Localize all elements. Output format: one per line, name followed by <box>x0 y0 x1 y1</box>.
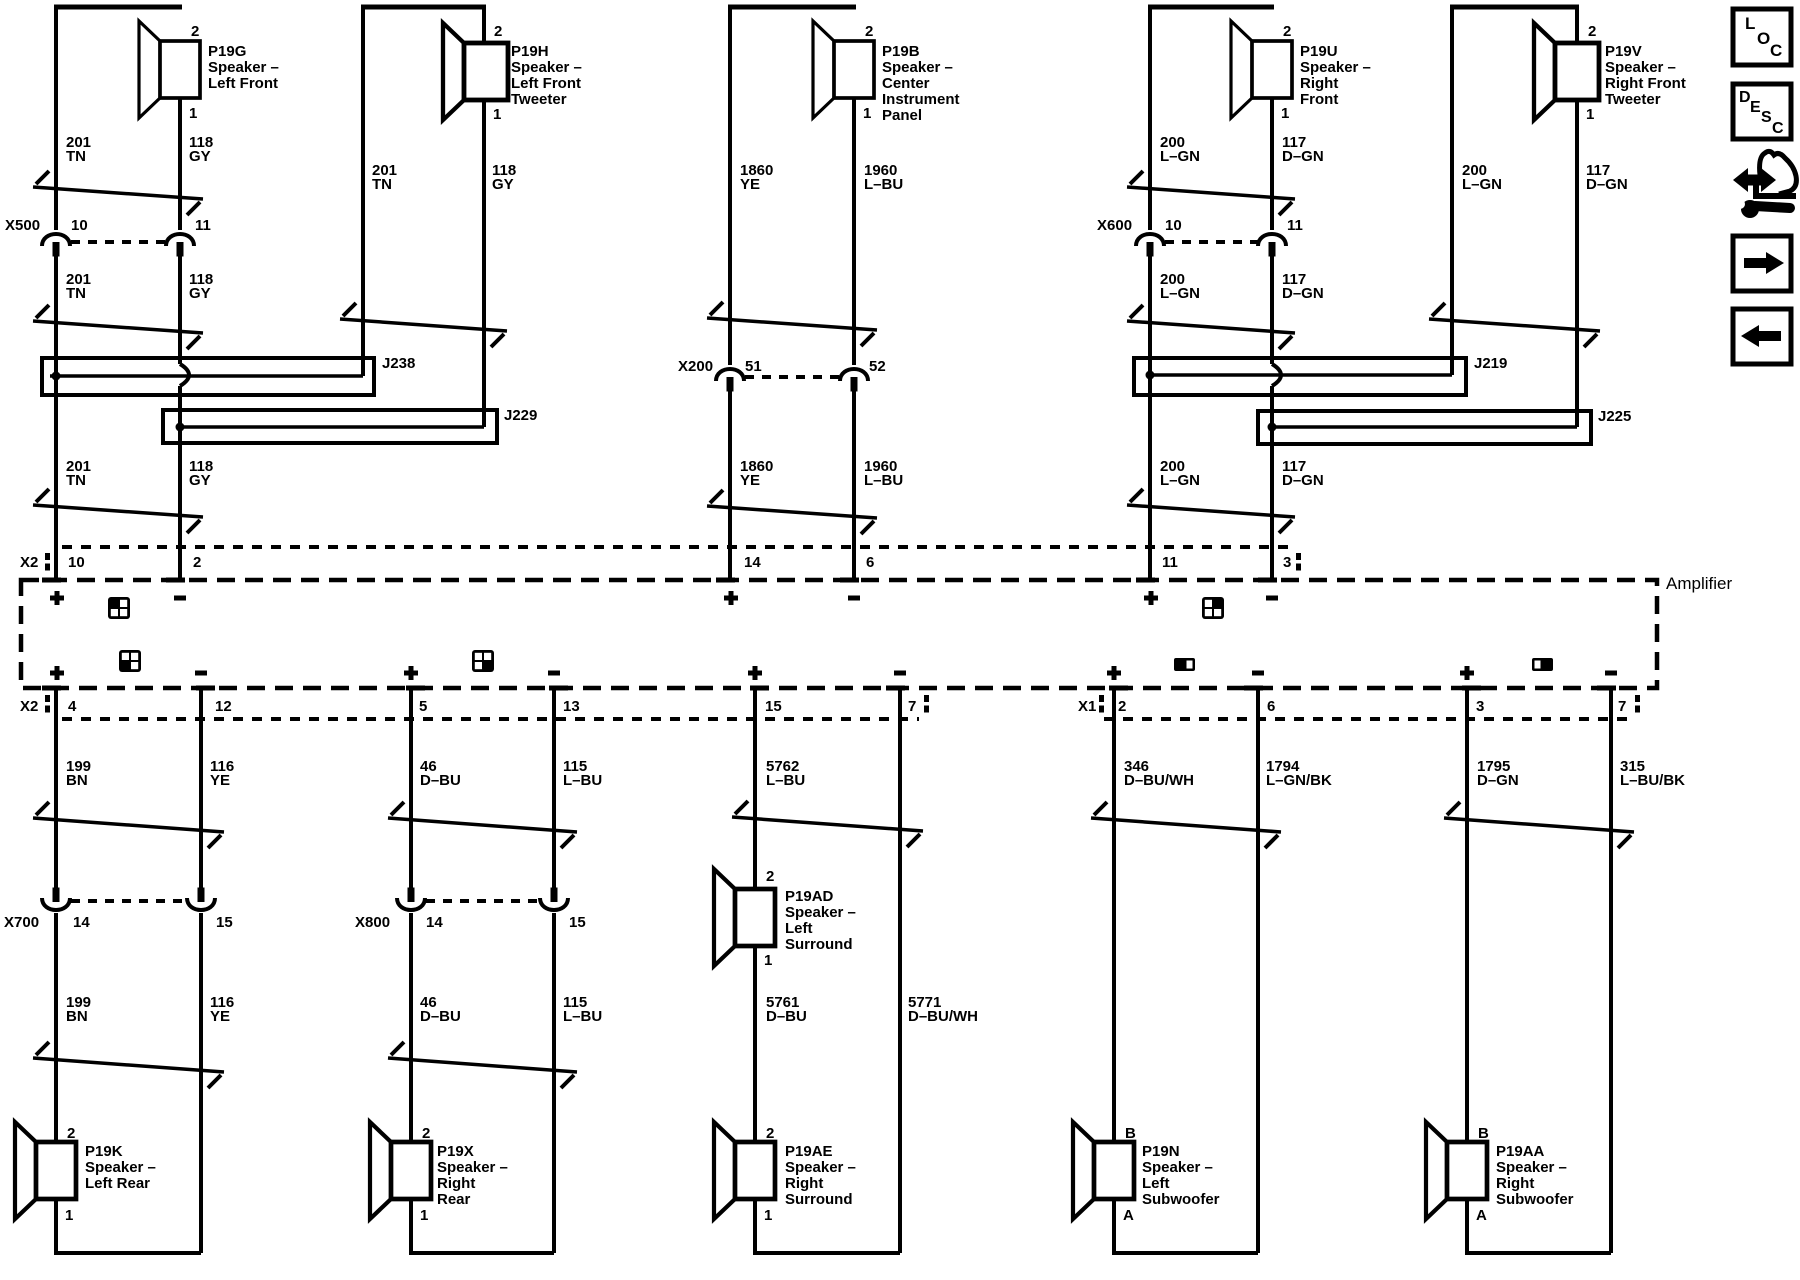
wire P19H tweeter loop top <box>361 5 486 10</box>
connector X2 bottom label <box>20 698 38 715</box>
svg-text:P19H: P19H <box>511 43 549 60</box>
label 118 GY row1 <box>189 134 213 165</box>
speaker P19AE <box>714 1122 775 1219</box>
harness crossing center pair row2 <box>707 490 877 534</box>
svg-text:1: 1 <box>493 106 501 123</box>
svg-text:11: 11 <box>1162 554 1178 571</box>
connector X2 bottom colon left <box>45 695 50 713</box>
wire 117 D-GN right tweeter pin1 drop <box>1575 100 1579 427</box>
amplifier pin foot X1-3 <box>1462 686 1481 691</box>
connector X700 label <box>4 914 39 931</box>
svg-text:P19N: P19N <box>1142 1143 1180 1160</box>
connector X700 cavity 14 <box>42 888 70 911</box>
speaker P19H <box>443 23 508 120</box>
svg-text:GY: GY <box>189 285 211 302</box>
amplifier + right front <box>1144 591 1158 605</box>
legend LOC box <box>1733 9 1791 65</box>
legend forward arrow box <box>1733 236 1791 291</box>
wire 118 GY tweeter pin1 drop <box>482 100 486 427</box>
amplifier - surround <box>894 671 906 676</box>
amplifier + right subwoofer <box>1460 666 1474 680</box>
wire P19V tweeter loop top <box>1450 5 1579 10</box>
splice J238 wire <box>50 374 363 378</box>
connector X2 pin 5 label <box>419 698 427 715</box>
svg-text:X1: X1 <box>1078 698 1096 715</box>
splice J238 box <box>42 358 374 395</box>
amplifier pin foot X2-3 <box>1258 578 1277 583</box>
connector X700 cavity 15 <box>187 888 215 911</box>
connector X500 pin 10 label <box>71 217 88 234</box>
amplifier pin foot X2-2 <box>166 578 185 583</box>
speaker P19U pin 2 <box>1283 23 1291 40</box>
connector X200 cavity 52 <box>840 369 868 392</box>
splice J219 junction dot <box>1146 371 1155 380</box>
amplifier pin foot X2-5 <box>406 686 425 691</box>
svg-text:1: 1 <box>863 105 871 122</box>
connector X2 pin 12 label <box>215 698 232 715</box>
connector X1 pin 7 label <box>1618 698 1626 715</box>
svg-text:X600: X600 <box>1097 217 1132 234</box>
svg-text:D–BU: D–BU <box>420 1008 461 1025</box>
speaker P19N pin A <box>1123 1207 1134 1224</box>
amplifier - center <box>848 596 860 601</box>
speaker P19B label <box>882 43 960 124</box>
speaker P19K label <box>85 1143 156 1192</box>
svg-text:L–BU: L–BU <box>563 1008 602 1025</box>
amplifier pin foot X2-14 <box>716 578 735 583</box>
svg-text:P19AD: P19AD <box>785 888 834 905</box>
harness crossing left tweeter pair <box>340 303 507 347</box>
connector X500 cavity 11 <box>166 234 194 257</box>
connector X800 pin 14 label <box>426 914 443 931</box>
label 115 L-BU row5 <box>563 994 602 1025</box>
label 5771 D-BU/WH row5 <box>908 994 978 1025</box>
amplifier pin foot X2-13 <box>549 686 568 691</box>
svg-text:L–BU: L–BU <box>864 176 903 193</box>
amplifier pin foot X1-7 <box>1597 686 1616 691</box>
svg-text:A: A <box>1123 1207 1134 1224</box>
connector X600 pin 11 label <box>1287 217 1303 234</box>
svg-text:7: 7 <box>908 698 916 715</box>
svg-text:2: 2 <box>1118 698 1126 715</box>
speaker P19K <box>15 1122 76 1219</box>
amplifier channel icon right subwoofer <box>1532 658 1553 671</box>
svg-text:Right: Right <box>1496 1175 1534 1192</box>
wire 200 L-GN segment 2 <box>1148 256 1152 578</box>
label 201 TN row1 <box>66 134 91 165</box>
connector X600 pin 10 label <box>1165 217 1182 234</box>
speaker P19U label <box>1300 43 1371 108</box>
label 117 D-GN row2 <box>1282 271 1324 302</box>
svg-text:2: 2 <box>191 23 199 40</box>
label 118 GY row3 <box>189 458 213 489</box>
amplifier channel icon left subwoofer <box>1174 658 1195 671</box>
label 201 TN tweeter <box>372 162 397 193</box>
connector X2 pin 4 label <box>68 698 77 715</box>
svg-text:2: 2 <box>1283 23 1291 40</box>
speaker P19AA pin B <box>1478 1125 1489 1142</box>
harness crossing left-front pair <box>33 171 203 215</box>
svg-text:J238: J238 <box>382 355 415 372</box>
svg-text:4: 4 <box>68 698 77 715</box>
amplifier + left front <box>50 591 64 605</box>
svg-text:X800: X800 <box>355 914 390 931</box>
svg-text:15: 15 <box>216 914 233 931</box>
connector X600 cavity 11 <box>1258 234 1286 257</box>
svg-text:BN: BN <box>66 1008 88 1025</box>
speaker P19K pin 1 <box>65 1207 73 1224</box>
svg-text:O: O <box>1757 29 1770 48</box>
amplifier pin foot X2-15 <box>750 686 769 691</box>
svg-text:GY: GY <box>492 176 514 193</box>
label 315 L-BU/BK row4 <box>1620 758 1685 789</box>
legend DESC box <box>1733 84 1791 139</box>
label 118 GY row2 <box>189 271 213 302</box>
connector X200 label <box>678 358 713 375</box>
connector X700 pin 15 label <box>216 914 233 931</box>
wire 116 YE segment 1 <box>199 687 203 888</box>
speaker P19G pin 2 <box>191 23 199 40</box>
splice J229 label <box>504 407 537 424</box>
speaker P19G <box>139 21 200 118</box>
svg-text:X500: X500 <box>5 217 40 234</box>
svg-text:12: 12 <box>215 698 232 715</box>
svg-text:D–GN: D–GN <box>1282 472 1324 489</box>
svg-text:1: 1 <box>65 1207 73 1224</box>
wire 346 D-BU/WH <box>1112 687 1116 1142</box>
svg-text:Speaker –: Speaker – <box>785 904 856 921</box>
svg-text:1: 1 <box>1281 105 1289 122</box>
svg-text:15: 15 <box>569 914 586 931</box>
svg-text:1: 1 <box>420 1207 428 1224</box>
wire P19AA loop bottom <box>1467 1197 1611 1253</box>
connector X2 bottom colon right <box>924 695 929 713</box>
connector X600 label <box>1097 217 1132 234</box>
svg-text:L–BU/BK: L–BU/BK <box>1620 772 1685 789</box>
speaker P19AA <box>1426 1122 1487 1219</box>
speaker P19K pin 2 <box>67 1125 75 1142</box>
svg-text:Amplifier: Amplifier <box>1666 574 1732 593</box>
wire 199 BN segment 1 <box>54 687 58 888</box>
harness crossing left rear pair row2 <box>33 1042 224 1088</box>
splice J229 junction dot <box>176 423 185 432</box>
connector X200 mating dash <box>745 375 839 379</box>
connector X500 cavity 10 <box>42 234 70 257</box>
svg-text:Rear: Rear <box>437 1191 471 1208</box>
label 1960 L-BU row1 <box>864 162 903 193</box>
svg-text:Center: Center <box>882 75 930 92</box>
connector X2 pin 3 label <box>1283 554 1291 571</box>
connector X1 colon right <box>1635 695 1640 713</box>
connector X2 top colon left <box>45 553 50 571</box>
svg-text:10: 10 <box>71 217 88 234</box>
svg-text:2: 2 <box>766 1125 774 1142</box>
svg-text:2: 2 <box>422 1125 430 1142</box>
speaker P19AD <box>714 869 775 966</box>
splice J229 wire <box>177 425 484 429</box>
connector X2 pin 15 label <box>765 698 782 715</box>
amplifier + left subwoofer <box>1107 666 1121 680</box>
svg-text:Speaker –: Speaker – <box>208 59 279 76</box>
svg-text:X2: X2 <box>20 698 38 715</box>
speaker P19B pin 1 <box>863 105 871 122</box>
svg-text:E: E <box>1750 99 1761 116</box>
svg-text:14: 14 <box>426 914 443 931</box>
svg-text:Left: Left <box>785 920 813 937</box>
amplifier channel icon left rear <box>119 650 141 672</box>
svg-text:D–GN: D–GN <box>1477 772 1519 789</box>
label 118 GY tweeter <box>492 162 516 193</box>
wire 200 L-GN right-front segment 1 <box>1148 7 1152 230</box>
splice J219 label <box>1474 355 1507 372</box>
svg-text:10: 10 <box>68 554 85 571</box>
wire 201 TN left-front segment 1 <box>54 7 58 230</box>
svg-text:1: 1 <box>189 105 197 122</box>
wire 118 GY segment 2 with hop at J238 <box>180 256 189 578</box>
svg-text:5: 5 <box>419 698 427 715</box>
svg-text:2: 2 <box>67 1125 75 1142</box>
connector X800 label <box>355 914 390 931</box>
svg-text:2: 2 <box>865 23 873 40</box>
svg-text:L–BU: L–BU <box>766 772 805 789</box>
svg-text:BN: BN <box>66 772 88 789</box>
svg-text:Speaker –: Speaker – <box>437 1159 508 1176</box>
legend service icon <box>1733 151 1796 218</box>
connector X2 pin 2 label <box>193 554 201 571</box>
connector X500 mating dash <box>71 240 165 244</box>
speaker P19V pin 2 <box>1588 23 1596 40</box>
amplifier dashed outline <box>21 580 1657 688</box>
speaker P19B <box>813 21 874 118</box>
svg-text:B: B <box>1478 1125 1489 1142</box>
label 46 D-BU row4 <box>420 758 461 789</box>
connector X2 top dotted row <box>62 545 1292 549</box>
svg-text:X2: X2 <box>20 554 38 571</box>
speaker P19N <box>1073 1122 1134 1219</box>
svg-text:1: 1 <box>764 952 772 969</box>
speaker P19AE pin 2 <box>766 1125 774 1142</box>
svg-text:Instrument: Instrument <box>882 91 960 108</box>
svg-text:TN: TN <box>66 148 86 165</box>
label 201 TN row2 <box>66 271 91 302</box>
svg-text:P19U: P19U <box>1300 43 1338 60</box>
amplifier pin foot X1-6 <box>1244 686 1263 691</box>
svg-text:A: A <box>1476 1207 1487 1224</box>
svg-text:C: C <box>1770 41 1782 60</box>
amplifier + surround <box>748 666 762 680</box>
speaker P19U <box>1231 21 1292 118</box>
amplifier pin foot X2-6 <box>840 578 859 583</box>
speaker P19X pin 1 <box>420 1207 428 1224</box>
wire P19AE loop bottom <box>755 1197 900 1253</box>
harness crossing right rear pair row2 <box>388 1042 577 1088</box>
speaker P19U pin 1 <box>1281 105 1289 122</box>
svg-text:Front: Front <box>1300 91 1338 108</box>
wire 1960 L-BU segment 2 <box>852 391 856 578</box>
svg-text:P19X: P19X <box>437 1143 474 1160</box>
svg-text:TN: TN <box>66 472 86 489</box>
amplifier - right subwoofer <box>1605 671 1617 676</box>
svg-text:YE: YE <box>210 772 230 789</box>
svg-text:2: 2 <box>193 554 201 571</box>
wire 201 TN segment 2 <box>54 256 58 578</box>
connector X1 colon left <box>1099 695 1104 713</box>
speaker P19H pin 2 <box>494 23 502 40</box>
svg-text:J229: J229 <box>504 407 537 424</box>
svg-text:13: 13 <box>563 698 580 715</box>
svg-text:P19AA: P19AA <box>1496 1143 1545 1160</box>
wire 46 D-BU segment 1 <box>409 687 413 888</box>
connector X1 pin 3 label <box>1476 698 1484 715</box>
speaker P19AD pin 1 <box>764 952 772 969</box>
connector X200 pin 51 label <box>745 358 762 375</box>
label 200 L-GN row3 <box>1160 458 1200 489</box>
svg-text:11: 11 <box>1287 217 1303 234</box>
svg-text:Left: Left <box>1142 1175 1170 1192</box>
splice J225 wire <box>1272 425 1577 429</box>
harness crossing left-front pair row3 <box>33 489 203 533</box>
svg-text:P19AE: P19AE <box>785 1143 833 1160</box>
splice J238 junction dot <box>52 372 61 381</box>
label 46 D-BU row5 <box>420 994 461 1025</box>
connector X500 pin 11 label <box>195 217 211 234</box>
svg-text:10: 10 <box>1165 217 1182 234</box>
svg-text:2: 2 <box>1588 23 1596 40</box>
svg-text:Tweeter: Tweeter <box>1605 91 1661 108</box>
svg-text:15: 15 <box>765 698 782 715</box>
label 200 L-GN row1 <box>1160 134 1200 165</box>
wire 118 GY left-front pin1 segment <box>178 98 182 230</box>
connector X600 cavity 10 <box>1136 234 1164 257</box>
harness crossing right-front pair <box>1127 171 1295 215</box>
svg-text:52: 52 <box>869 358 886 375</box>
wire 1794 L-GN/BK <box>1256 687 1260 1253</box>
connector X2 pin 13 label <box>563 698 580 715</box>
harness crossing right subwoofer pair <box>1444 802 1634 848</box>
svg-text:P19B: P19B <box>882 43 920 60</box>
speaker P19G label <box>208 43 279 92</box>
speaker P19V <box>1534 23 1599 120</box>
connector X2 pin 7 label <box>908 698 916 715</box>
svg-text:Speaker –: Speaker – <box>1496 1159 1567 1176</box>
connector X2 bottom dotted row <box>62 717 919 721</box>
svg-text:Right Front: Right Front <box>1605 75 1686 92</box>
wire 117 D-GN right tweeter pin 2 stub <box>1575 7 1579 43</box>
wire 200 L-GN right tweeter drop <box>1450 7 1454 375</box>
amplifier pin foot X2-4 <box>42 686 61 691</box>
svg-text:J219: J219 <box>1474 355 1507 372</box>
svg-text:Speaker –: Speaker – <box>1300 59 1371 76</box>
svg-text:Left Front: Left Front <box>511 75 581 92</box>
amplifier channel icon right front <box>1202 597 1224 619</box>
svg-text:P19G: P19G <box>208 43 246 60</box>
wire P19X loop bottom <box>411 1197 554 1253</box>
svg-text:L–GN: L–GN <box>1160 472 1200 489</box>
speaker P19H pin 1 <box>493 106 501 123</box>
svg-text:Speaker –: Speaker – <box>785 1159 856 1176</box>
amplifier - left rear <box>195 671 207 676</box>
label 346 D-BU/WH row4 <box>1124 758 1194 789</box>
connector X500 label <box>5 217 40 234</box>
svg-text:D–BU/WH: D–BU/WH <box>1124 772 1194 789</box>
label 5761 D-BU row5 <box>766 994 807 1025</box>
wire P19B loop top <box>728 5 856 10</box>
svg-text:Right: Right <box>785 1175 823 1192</box>
wire 5771 D-BU/WH <box>898 687 902 1253</box>
speaker P19X <box>370 1122 431 1219</box>
amplifier channel icon left front <box>108 597 130 619</box>
wire 315 L-BU/BK <box>1609 687 1613 1253</box>
svg-text:D–GN: D–GN <box>1282 285 1324 302</box>
svg-text:Surround: Surround <box>785 1191 853 1208</box>
amplifier + right rear <box>404 666 418 680</box>
speaker P19N label <box>1142 1143 1220 1208</box>
speaker P19AD pin 2 <box>766 868 774 885</box>
svg-text:Right: Right <box>437 1175 475 1192</box>
svg-text:YE: YE <box>740 472 760 489</box>
harness crossing left subwoofer pair <box>1091 802 1281 848</box>
svg-text:Right: Right <box>1300 75 1338 92</box>
svg-text:Speaker –: Speaker – <box>511 59 582 76</box>
svg-text:Speaker –: Speaker – <box>882 59 953 76</box>
svg-text:D–BU: D–BU <box>420 772 461 789</box>
svg-text:Left Front: Left Front <box>208 75 278 92</box>
svg-text:D–BU/WH: D–BU/WH <box>908 1008 978 1025</box>
svg-text:Left Rear: Left Rear <box>85 1175 150 1192</box>
label 1795 D-GN row4 <box>1477 758 1519 789</box>
speaker P19AA label <box>1496 1143 1574 1208</box>
amplifier - left subwoofer <box>1252 671 1264 676</box>
svg-text:Tweeter: Tweeter <box>511 91 567 108</box>
svg-text:6: 6 <box>1267 698 1275 715</box>
svg-text:L–GN: L–GN <box>1160 285 1200 302</box>
speaker P19H label <box>511 43 582 108</box>
harness crossing left-front pair row2 <box>33 305 203 349</box>
wire 115 L-BU segment 1 <box>552 687 556 888</box>
svg-text:6: 6 <box>866 554 874 571</box>
speaker P19AD label <box>785 888 856 953</box>
speaker P19B pin 2 <box>865 23 873 40</box>
harness crossing right rear pair <box>388 802 577 848</box>
amplifier - right front <box>1266 596 1278 601</box>
svg-text:S: S <box>1761 109 1772 126</box>
svg-text:D–GN: D–GN <box>1282 148 1324 165</box>
svg-text:14: 14 <box>73 914 90 931</box>
splice J219 box <box>1134 358 1466 395</box>
harness crossing surround pair <box>732 801 923 847</box>
speaker P19N pin B <box>1125 1125 1136 1142</box>
amplifier - right rear <box>548 671 560 676</box>
svg-text:D: D <box>1739 89 1751 106</box>
svg-text:L–BU: L–BU <box>864 472 903 489</box>
svg-text:X200: X200 <box>678 358 713 375</box>
svg-text:2: 2 <box>494 23 502 40</box>
svg-text:L–GN: L–GN <box>1462 176 1502 193</box>
label 5762 L-BU row4 <box>766 758 805 789</box>
connector X600 mating dash <box>1165 240 1259 244</box>
amplifier pin foot X2-12 <box>196 686 215 691</box>
wire 117 D-GN right-front pin1 segment <box>1270 98 1274 230</box>
svg-text:TN: TN <box>66 285 86 302</box>
svg-text:51: 51 <box>745 358 762 375</box>
label 117 D-GN row1 <box>1282 134 1324 165</box>
speaker P19X label <box>437 1143 508 1208</box>
svg-text:J225: J225 <box>1598 408 1631 425</box>
connector X1 pin 2 label <box>1118 698 1126 715</box>
svg-text:GY: GY <box>189 472 211 489</box>
wire P19G loop top <box>54 5 182 10</box>
wire 1795 D-GN <box>1465 687 1469 1142</box>
